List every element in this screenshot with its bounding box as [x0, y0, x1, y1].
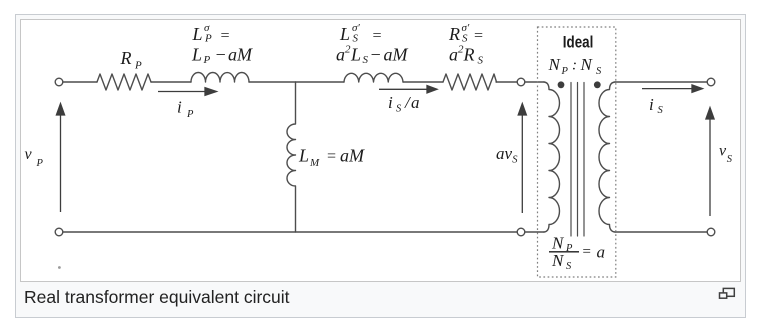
svg-text:=: = — [326, 148, 337, 165]
svg-text:P: P — [36, 158, 44, 169]
svg-text:=: = — [372, 28, 383, 45]
arrow v_P — [56, 104, 64, 213]
svg-text:S: S — [596, 66, 602, 77]
resistor R_P — [97, 74, 151, 90]
svg-text:v: v — [25, 146, 33, 163]
label a2 R_S — [449, 44, 484, 67]
svg-text::: : — [572, 58, 577, 74]
resistor R_S — [443, 74, 497, 90]
svg-text:aM: aM — [228, 45, 253, 65]
label N_P over N_S = a — [549, 234, 605, 273]
wire top right — [615, 81, 707, 83]
inductor L_M magnetizing branch — [287, 82, 296, 232]
wire bottom left — [63, 231, 517, 233]
terminal top-left — [55, 78, 63, 86]
svg-text:N: N — [580, 55, 594, 74]
svg-text:S: S — [512, 155, 518, 166]
svg-text:P: P — [134, 60, 142, 72]
label v_S — [719, 143, 733, 166]
svg-text:S: S — [727, 154, 733, 165]
transformer core line 2 — [577, 83, 579, 237]
svg-text:=: = — [473, 28, 484, 45]
svg-text:S: S — [658, 105, 664, 116]
caption — [24, 287, 704, 307]
inductor L_P leakage — [191, 73, 249, 82]
svg-text:R: R — [120, 48, 132, 68]
polarity dot primary — [558, 81, 565, 88]
svg-text:S: S — [396, 104, 402, 115]
svg-text:aM: aM — [384, 45, 409, 65]
label v_P — [25, 146, 44, 169]
svg-text:N: N — [548, 55, 562, 74]
label i_S / a — [388, 93, 420, 115]
terminal bottom-right — [707, 228, 715, 236]
wire — [249, 81, 344, 83]
ideal transformer dotted box — [538, 27, 616, 277]
svg-text:M: M — [309, 157, 320, 169]
svg-text:P: P — [204, 33, 212, 45]
arrow i_S/a — [379, 86, 437, 93]
node bottom-mid terminal — [517, 228, 525, 236]
svg-text:N: N — [551, 234, 565, 253]
terminal bottom-left — [55, 228, 63, 236]
svg-text:a: a — [336, 45, 345, 65]
wire — [496, 81, 517, 83]
enlarge icon — [720, 288, 735, 298]
terminal top-right — [707, 78, 715, 86]
stray dot mark — [58, 266, 61, 269]
svg-text:R: R — [463, 45, 475, 65]
transformer core line 1 — [570, 83, 572, 237]
svg-text:L: L — [191, 45, 202, 65]
svg-text:L: L — [298, 146, 309, 166]
inductor L_S leakage — [344, 73, 403, 82]
svg-text:P: P — [561, 66, 569, 77]
svg-text:=: = — [582, 244, 592, 260]
wire — [525, 231, 544, 233]
svg-text:N: N — [551, 251, 565, 270]
wire — [63, 81, 97, 83]
svg-text:P: P — [186, 109, 194, 120]
label R_P — [120, 48, 143, 72]
svg-text:−: − — [215, 45, 227, 65]
arrow i_P — [158, 88, 217, 96]
label L_P minus aM — [191, 45, 253, 67]
svg-text:a: a — [411, 93, 420, 112]
label L_M = aM — [298, 146, 365, 170]
arrow av_S — [518, 104, 526, 214]
svg-text:i: i — [177, 98, 182, 117]
label N_P : N_S — [548, 55, 603, 77]
arrow v_S — [706, 108, 714, 217]
svg-text:i: i — [388, 93, 393, 112]
svg-text:L: L — [192, 24, 203, 44]
svg-text:L: L — [350, 45, 361, 65]
svg-text:=: = — [220, 28, 231, 45]
node top-mid terminal — [517, 78, 525, 86]
image box — [20, 19, 741, 282]
svg-text:L: L — [339, 24, 350, 44]
svg-text:−: − — [370, 45, 382, 65]
label i_S — [649, 95, 664, 116]
svg-text:v: v — [719, 143, 727, 160]
arrow i_S — [642, 85, 703, 92]
wire — [403, 81, 443, 83]
wire — [151, 81, 191, 83]
svg-text:P: P — [203, 54, 211, 66]
svg-text:S: S — [363, 54, 369, 66]
svg-text:av: av — [496, 144, 513, 163]
svg-text:a: a — [340, 146, 349, 166]
transformer secondary winding — [599, 82, 615, 232]
svg-text:Ideal: Ideal — [563, 33, 594, 52]
svg-text:S: S — [566, 261, 572, 272]
label L_P sigma = — [192, 22, 231, 45]
svg-text:a: a — [597, 243, 606, 262]
svg-text:S: S — [478, 55, 484, 67]
transformer core line 3 — [583, 83, 585, 237]
svg-text:R: R — [448, 24, 460, 44]
svg-text:S: S — [353, 33, 359, 45]
polarity dot secondary — [594, 81, 601, 88]
wire bottom right — [615, 231, 707, 233]
svg-text:i: i — [649, 95, 654, 114]
label R_S sigma' = — [448, 22, 484, 45]
wire — [525, 81, 544, 83]
transformer primary winding — [544, 82, 560, 232]
label i_P — [177, 98, 194, 121]
label a2 L_S minus aM — [336, 44, 409, 67]
svg-text:a: a — [449, 45, 458, 65]
label L_S sigma' = — [339, 22, 382, 45]
label av_S — [496, 144, 518, 166]
svg-text:M: M — [348, 146, 365, 166]
